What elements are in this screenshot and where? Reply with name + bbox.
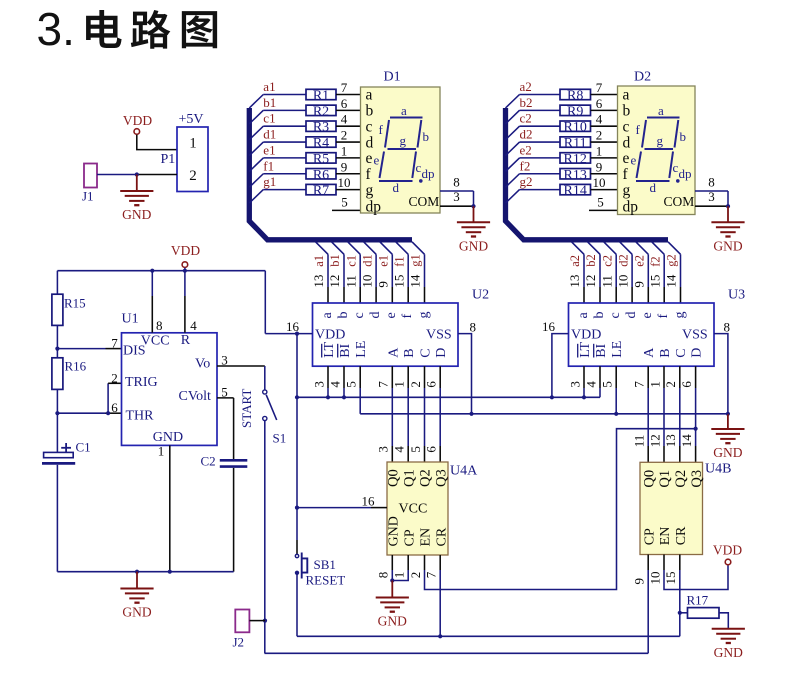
svg-text:TRIG: TRIG <box>125 375 158 390</box>
wire S1 to clock rail <box>264 421 266 654</box>
junction U4B Q3 / carry <box>694 427 698 431</box>
wire GND rail (mid) <box>360 413 728 415</box>
svg-text:U1: U1 <box>122 312 139 327</box>
svg-text:R12: R12 <box>564 152 587 167</box>
wire net c2 from bus <box>506 126 520 140</box>
junction U4B CR / R17 <box>678 611 682 615</box>
svg-text:4: 4 <box>190 318 197 333</box>
ground symbol GND (P1) <box>120 190 153 192</box>
svg-text:b: b <box>623 103 631 120</box>
svg-text:e: e <box>374 153 380 168</box>
svg-text:16: 16 <box>362 494 376 509</box>
wire R14 to D2 pin 10 <box>591 189 618 191</box>
wire U4B CP to clock rail <box>647 555 649 571</box>
svg-text:R8: R8 <box>567 89 583 104</box>
svg-text:6: 6 <box>424 446 439 453</box>
svg-text:10: 10 <box>359 275 374 288</box>
svg-text:3: 3 <box>708 189 715 204</box>
wire R4 to D1 pin 2 <box>336 141 361 143</box>
svg-text:9: 9 <box>341 159 348 174</box>
svg-text:U2: U2 <box>472 288 489 303</box>
wire bus to U2 pin 9 <box>380 242 393 255</box>
junction U2 VSS / GND rail <box>469 412 473 416</box>
svg-text:EN: EN <box>419 528 434 547</box>
wire VDD rail down to pin16 row <box>264 271 266 334</box>
ground symbol GND (R17) <box>712 628 745 630</box>
svg-text:BI: BI <box>338 343 353 357</box>
svg-text:dp: dp <box>679 166 692 181</box>
svg-text:f: f <box>400 314 415 319</box>
svg-text:10: 10 <box>338 175 351 190</box>
wire reset rail <box>297 635 680 637</box>
svg-text:A: A <box>386 347 401 358</box>
svg-text:d: d <box>624 312 639 319</box>
junction VDD rail / U1 VCC <box>150 269 154 273</box>
svg-text:7: 7 <box>424 571 439 578</box>
svg-text:2: 2 <box>111 370 118 385</box>
wire D2 COM pin 3 <box>695 205 728 207</box>
svg-text:11: 11 <box>343 275 358 288</box>
svg-text:9: 9 <box>376 281 391 288</box>
svg-text:d2: d2 <box>616 254 630 267</box>
svg-text:LE: LE <box>610 341 625 358</box>
svg-text:B: B <box>658 348 673 357</box>
junction R15/R16/DIS <box>55 347 59 351</box>
wire R8 to D2 pin 7 <box>591 94 618 96</box>
wire net b1 from bus <box>249 110 263 124</box>
svg-text:CP: CP <box>642 528 657 545</box>
connector J1 <box>84 164 97 188</box>
connector J2 <box>235 610 249 633</box>
wire TRIG to THR <box>107 383 109 413</box>
junction U4A CR / reset rail <box>438 634 442 638</box>
svg-text:Vo: Vo <box>195 357 210 372</box>
svg-text:RESET: RESET <box>306 573 346 588</box>
svg-text:4: 4 <box>327 381 342 388</box>
capacitor C2 <box>220 459 248 462</box>
svg-text:a: a <box>658 103 664 118</box>
wire bus to U3 pin 15 <box>652 242 665 255</box>
wire U2 BI to VDD rail <box>343 366 345 388</box>
svg-text:13: 13 <box>311 275 326 288</box>
wire DIS to U1 <box>57 348 105 350</box>
svg-text:1: 1 <box>189 136 197 152</box>
display D1 7-segment graphic <box>390 117 423 119</box>
ground symbol GND (U4A) <box>376 597 409 599</box>
junction U3 pin16 / VDD rail <box>550 395 554 399</box>
IC U3 body with pin names <box>569 303 715 366</box>
svg-text:4: 4 <box>392 446 407 453</box>
junction TRIG/THR <box>106 411 110 415</box>
wire U2 D to U4A Q3 <box>439 366 441 388</box>
svg-text:D1: D1 <box>384 70 401 85</box>
wire J1 to P1 pin2 <box>97 174 137 176</box>
svg-text:Q2: Q2 <box>673 470 689 488</box>
svg-text:VDD: VDD <box>315 328 345 343</box>
svg-text:g: g <box>366 182 374 199</box>
svg-text:8: 8 <box>470 319 477 334</box>
svg-text:VDD: VDD <box>571 328 601 343</box>
svg-text:g2: g2 <box>520 174 533 189</box>
title text "电路图" <box>86 10 121 48</box>
svg-text:5: 5 <box>344 381 359 388</box>
svg-text:GND: GND <box>713 238 742 253</box>
svg-text:3.: 3. <box>37 3 75 55</box>
wire bus to U2 pin 12 <box>332 242 345 255</box>
svg-text:g: g <box>416 312 431 319</box>
svg-text:1: 1 <box>647 381 662 388</box>
svg-text:6: 6 <box>679 381 694 388</box>
wire J2 to S1 column <box>249 620 265 622</box>
svg-text:Q3: Q3 <box>689 470 705 488</box>
svg-text:b1: b1 <box>263 95 276 110</box>
svg-text:VDD: VDD <box>713 543 742 558</box>
svg-text:2: 2 <box>663 381 678 388</box>
wire SB1 to reset rail <box>296 575 298 637</box>
svg-text:a: a <box>401 103 407 118</box>
svg-text:5: 5 <box>341 195 348 210</box>
svg-text:8: 8 <box>708 175 715 190</box>
resistor R4 <box>306 137 336 147</box>
wire R15 to R16 <box>56 325 58 357</box>
wire VDD rail to U2 pin 16 <box>265 333 312 335</box>
svg-text:d: d <box>368 312 383 319</box>
svg-text:R: R <box>181 333 191 348</box>
ground stem (U4A) <box>391 581 393 598</box>
wire bus to U3 pin 14 <box>668 242 681 255</box>
svg-text:c1: c1 <box>263 111 275 126</box>
svg-text:e1: e1 <box>263 142 275 157</box>
svg-text:b: b <box>680 129 687 144</box>
svg-text:11: 11 <box>632 435 647 448</box>
svg-text:f: f <box>656 314 671 319</box>
svg-text:R5: R5 <box>313 152 329 167</box>
svg-text:D2: D2 <box>634 70 651 85</box>
svg-text:COM: COM <box>664 194 695 209</box>
svg-text:c: c <box>623 118 630 135</box>
wire bus to U2 pin 10 <box>364 242 377 255</box>
IC U2 body with pin names <box>313 303 459 366</box>
junction VDD rail / U1 R <box>183 269 187 273</box>
capacitor C1 <box>44 452 74 457</box>
svg-text:D: D <box>690 348 705 358</box>
wire U3 C to U4B Q2 <box>679 366 681 388</box>
wire net d2 from bus <box>506 142 520 156</box>
svg-text:d: d <box>366 134 374 151</box>
svg-text:2: 2 <box>408 572 423 579</box>
svg-text:3: 3 <box>311 381 326 388</box>
junction R16/THR <box>55 411 59 415</box>
resistor R16 <box>52 358 63 390</box>
resistor R14 <box>560 184 591 194</box>
resistor R11 <box>560 137 591 147</box>
bus (D1 segment bus) <box>249 108 412 240</box>
svg-text:6: 6 <box>424 381 439 388</box>
svg-text:U4A: U4A <box>450 464 478 479</box>
svg-text:CVolt: CVolt <box>179 389 212 404</box>
wire R12 to D2 pin 1 <box>591 157 618 159</box>
svg-text:8: 8 <box>376 572 391 579</box>
wire C1 to ground rail <box>56 465 58 572</box>
svg-text:f: f <box>623 166 629 183</box>
switch S1 top contact <box>263 390 267 394</box>
svg-text:e2: e2 <box>520 142 532 157</box>
svg-text:b1: b1 <box>328 254 342 267</box>
junction S1 wire / J2 <box>263 619 267 623</box>
svg-text:dp: dp <box>366 199 382 216</box>
svg-text:e: e <box>631 153 637 168</box>
wire net b2 from bus <box>506 110 520 124</box>
junction U4A GND/CP <box>390 578 394 582</box>
wire U2 C to U4A Q2 <box>424 366 426 388</box>
svg-text:13: 13 <box>663 434 678 447</box>
svg-text:g1: g1 <box>263 174 276 189</box>
wire U3 A to U4B Q0 <box>647 366 649 388</box>
svg-text:13: 13 <box>567 275 582 288</box>
ground stem (D1) <box>473 206 475 222</box>
wire clock rail <box>265 652 649 654</box>
svg-text:b2: b2 <box>584 254 598 267</box>
ground stem (P1) <box>136 175 138 192</box>
svg-text:GND: GND <box>122 605 151 620</box>
ground stem (U1) <box>136 572 138 589</box>
wire bus to U2 pin 13 <box>316 242 329 255</box>
pushbutton SB1 top contact <box>295 554 298 557</box>
junction U2 pin16 / SB1 column <box>295 332 299 336</box>
wire U1 CVolt to C2 <box>217 397 234 399</box>
svg-text:12: 12 <box>647 434 662 447</box>
wire net c1 from bus <box>249 126 263 140</box>
svg-text:R13: R13 <box>564 168 587 183</box>
wire U3 B to U4B Q1 <box>663 366 665 388</box>
wire R5 to D1 pin 1 <box>336 157 361 159</box>
junction VDD rail / SB1 column <box>295 395 299 399</box>
svg-text:BI: BI <box>594 343 609 357</box>
wire bus to U3 pin 9 <box>636 242 649 255</box>
wire R3 to D1 pin 4 <box>336 125 361 127</box>
svg-text:c: c <box>608 312 623 318</box>
resistor R1 <box>306 89 336 99</box>
resistor R17 <box>688 608 720 619</box>
svg-text:a1: a1 <box>312 255 326 267</box>
wire U4B EN to VDD <box>663 555 665 571</box>
svg-text:g2: g2 <box>665 254 679 267</box>
svg-text:a: a <box>623 87 630 104</box>
wire net e2 from bus <box>506 158 520 172</box>
svg-text:g: g <box>657 133 664 148</box>
resistor R7 <box>306 184 336 194</box>
junction D1 COM <box>471 204 475 208</box>
svg-text:15: 15 <box>663 572 678 585</box>
svg-text:1: 1 <box>158 444 165 459</box>
wire U3 VSS to GND rail <box>714 334 728 414</box>
ground symbol GND (D1) <box>457 221 490 223</box>
svg-text:J1: J1 <box>82 189 94 204</box>
resistor R2 <box>306 105 336 115</box>
svg-text:c2: c2 <box>600 255 614 267</box>
wire U4A CP pin to GND <box>407 555 409 570</box>
svg-text:5: 5 <box>597 195 604 210</box>
svg-text:7: 7 <box>111 336 118 351</box>
svg-text:c: c <box>366 118 373 135</box>
pushbutton SB1 actuator bar <box>301 553 303 579</box>
svg-text:2: 2 <box>596 128 603 143</box>
svg-text:b: b <box>336 312 351 319</box>
svg-text:SB1: SB1 <box>314 557 336 572</box>
wire U1 GND pin 1 <box>169 445 171 571</box>
svg-text:14: 14 <box>408 274 423 288</box>
junction at J1 wire / GND <box>135 172 139 176</box>
svg-text:1: 1 <box>392 381 407 388</box>
svg-text:GND: GND <box>122 207 151 222</box>
wire D1 COM pin 8 <box>440 190 474 192</box>
svg-text:EN: EN <box>658 527 673 546</box>
svg-text:D: D <box>434 348 449 358</box>
svg-text:8: 8 <box>453 175 460 190</box>
svg-text:Q0: Q0 <box>386 469 402 487</box>
svg-text:J2: J2 <box>233 635 245 650</box>
svg-text:16: 16 <box>286 319 300 334</box>
wire R2 to D1 pin 6 <box>336 109 361 111</box>
wire U4B CR to reset rail <box>679 613 681 637</box>
wire U4A EN carry line <box>424 555 426 570</box>
svg-text:B: B <box>402 348 417 357</box>
svg-text:C: C <box>674 348 689 357</box>
svg-text:LT: LT <box>578 342 593 358</box>
IC U4B body with pin names <box>640 462 703 554</box>
wire R16 to C1 <box>56 389 58 452</box>
switch S1 lever <box>266 395 277 420</box>
junction U3 LT <box>582 395 586 399</box>
junction U3 LE / GND rail <box>614 412 618 416</box>
svg-text:R17: R17 <box>687 592 709 607</box>
svg-text:f2: f2 <box>648 256 662 266</box>
svg-text:LE: LE <box>354 341 369 358</box>
svg-text:C2: C2 <box>201 454 216 469</box>
svg-text:2: 2 <box>189 168 197 184</box>
svg-text:CR: CR <box>674 526 689 545</box>
svg-text:15: 15 <box>647 275 662 288</box>
svg-text:Q1: Q1 <box>657 470 673 488</box>
wire net e1 from bus <box>249 158 263 172</box>
svg-text:GND: GND <box>387 516 402 546</box>
svg-text:a2: a2 <box>520 79 532 94</box>
wire VDD rail (mid) <box>297 396 600 398</box>
power port VDD circle (U1) <box>182 262 188 268</box>
wire R11 to D2 pin 2 <box>591 141 618 143</box>
svg-text:S1: S1 <box>273 431 287 446</box>
svg-text:DIS: DIS <box>123 344 146 359</box>
IC U4A body with pin names <box>387 462 448 555</box>
svg-text:THR: THR <box>126 408 155 423</box>
svg-text:9: 9 <box>632 578 647 585</box>
svg-text:2: 2 <box>408 381 423 388</box>
svg-text:5: 5 <box>600 381 615 388</box>
svg-text:10: 10 <box>593 175 606 190</box>
svg-text:R16: R16 <box>65 358 87 373</box>
svg-text:g: g <box>400 133 407 148</box>
wire SB1 column upper <box>296 334 298 540</box>
svg-text:VDD: VDD <box>171 243 200 258</box>
display D2 7-segment graphic <box>647 117 680 119</box>
svg-text:14: 14 <box>664 274 679 288</box>
svg-text:VSS: VSS <box>426 327 452 342</box>
resistor R5 <box>306 153 336 163</box>
svg-text:U3: U3 <box>728 288 745 303</box>
wire U4B CR pin <box>679 555 681 571</box>
svg-text:4: 4 <box>341 112 348 127</box>
svg-text:R2: R2 <box>313 104 329 119</box>
wire U3 LE to GND rail <box>615 366 617 388</box>
svg-text:4: 4 <box>596 112 603 127</box>
svg-text:7: 7 <box>596 80 603 95</box>
connector P1 <box>177 127 208 192</box>
junction U2 LT <box>326 395 330 399</box>
svg-text:a2: a2 <box>568 255 582 267</box>
svg-text:GND: GND <box>459 238 488 253</box>
svg-text:U4B: U4B <box>705 462 731 477</box>
wire U3 BI to VDD rail <box>599 366 601 388</box>
wire net f1 from bus <box>249 174 263 188</box>
svg-text:R1: R1 <box>313 89 329 104</box>
svg-text:R3: R3 <box>313 120 329 135</box>
svg-text:+5V: +5V <box>179 112 204 127</box>
svg-text:VCC: VCC <box>399 502 428 517</box>
wire VDD rail to U3 pin 16 <box>552 334 569 398</box>
svg-text:Q1: Q1 <box>401 469 417 487</box>
switch S1 bottom contact <box>263 416 267 420</box>
svg-text:1: 1 <box>341 143 348 158</box>
svg-text:a: a <box>320 312 335 319</box>
svg-text:e: e <box>623 150 630 167</box>
svg-text:Q3: Q3 <box>433 469 449 487</box>
svg-text:12: 12 <box>583 275 598 288</box>
svg-text:COM: COM <box>409 194 440 209</box>
svg-text:f: f <box>379 122 384 137</box>
wire D2 COM pin 8 <box>695 190 728 192</box>
svg-text:f: f <box>636 122 641 137</box>
svg-text:a1: a1 <box>263 79 275 94</box>
ground symbol GND (U3 VSS) <box>711 428 744 430</box>
wire C2 to ground rail <box>233 468 235 572</box>
svg-text:P1: P1 <box>161 152 176 167</box>
svg-text:R4: R4 <box>313 136 329 151</box>
wire R13 to D2 pin 9 <box>591 173 618 175</box>
junction U1 GND / ground rail <box>168 570 172 574</box>
svg-text:g: g <box>672 312 687 319</box>
svg-text:c1: c1 <box>344 255 358 267</box>
wire U2 VSS to GND rail <box>458 334 472 414</box>
wire U3 LT to VDD rail <box>583 366 585 388</box>
pushbutton SB1 bottom contact <box>295 571 299 575</box>
svg-text:16: 16 <box>542 319 556 334</box>
wire R1 to D1 pin 7 <box>336 94 361 96</box>
resistor R15 <box>52 294 63 325</box>
svg-text:LT: LT <box>322 342 337 358</box>
svg-text:e: e <box>640 312 655 318</box>
wire THR to U1 <box>57 412 105 414</box>
svg-text:R10: R10 <box>564 120 587 135</box>
svg-text:e: e <box>384 312 399 318</box>
svg-text:R11: R11 <box>564 136 587 151</box>
svg-text:b: b <box>366 103 374 120</box>
junction U3 VSS / GND rail <box>726 412 730 416</box>
wire R15 top <box>56 271 58 295</box>
resistor R8 <box>560 89 591 99</box>
resistor R10 <box>560 121 591 131</box>
wire U1 VCC pin 8 <box>151 271 153 296</box>
svg-text:1: 1 <box>392 572 407 579</box>
